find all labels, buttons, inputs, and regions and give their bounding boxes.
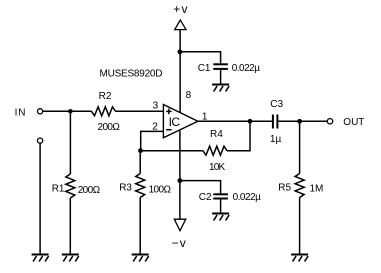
resistor R2	[92, 107, 116, 116]
svg-text:8: 8	[186, 90, 192, 101]
wire C1 to ground	[220, 70, 222, 84]
wire junction down to R1	[69, 111, 71, 174]
svg-text:IN: IN	[15, 107, 27, 118]
node OUT terminal	[327, 119, 332, 124]
wire output node down to R5	[299, 121, 301, 173]
svg-text:1M: 1M	[310, 184, 324, 195]
svg-text:R1: R1	[52, 184, 65, 195]
svg-text:100Ω: 100Ω	[149, 185, 172, 196]
capacitor C3 plates	[273, 115, 278, 129]
wire C2 to ground	[220, 199, 222, 213]
junction pin2/R3/R4	[138, 148, 143, 153]
resistor R1	[66, 174, 75, 198]
svg-text:IC: IC	[169, 115, 181, 129]
wire R3 to ground	[139, 198, 141, 254]
svg-text:MUSES8920D: MUSES8920D	[100, 69, 163, 80]
junction pin4/C2	[178, 178, 183, 183]
junction +v rail	[178, 49, 183, 54]
wire R5 to ground	[299, 198, 301, 254]
wire R1 to ground	[69, 198, 71, 254]
resistor R5	[295, 174, 304, 198]
svg-text:200Ω: 200Ω	[78, 185, 101, 196]
ground below R1	[62, 255, 79, 262]
ground below R3	[132, 255, 149, 262]
svg-text:R4: R4	[210, 129, 223, 140]
svg-text:C1: C1	[198, 63, 211, 74]
ground below C1	[212, 85, 229, 92]
svg-text:+v: +v	[173, 2, 188, 16]
node IN upper terminal	[38, 109, 43, 114]
wire output to C3	[198, 120, 272, 122]
wire +v to op-amp pin8	[179, 30, 181, 113]
junction input/R1	[68, 109, 73, 114]
ground below C2	[212, 214, 229, 221]
node IN lower terminal	[38, 138, 43, 143]
svg-text:3: 3	[153, 101, 159, 112]
capacitor C2 plates	[213, 194, 228, 198]
wire pin4 rail to C2	[180, 181, 221, 194]
svg-text:0.022µ: 0.022µ	[232, 63, 261, 74]
wire IN to R2	[43, 110, 92, 112]
resistor R4	[203, 146, 227, 155]
svg-text:C3: C3	[270, 99, 283, 110]
op-amp U1 (IC)	[163, 105, 198, 138]
svg-text:200Ω: 200Ω	[98, 122, 121, 133]
junction output/feedback	[248, 119, 253, 124]
wire R2 to pin3	[116, 110, 164, 112]
svg-text:2: 2	[152, 121, 158, 132]
svg-text:OUT: OUT	[343, 117, 364, 128]
wire C3 to OUT	[278, 120, 327, 122]
svg-text:0.022µ: 0.022µ	[233, 192, 262, 203]
wire pin4 down to -v	[179, 130, 181, 219]
svg-text:C2: C2	[199, 192, 212, 203]
wire +v rail to C1	[180, 52, 221, 64]
wire feedback rail	[141, 150, 204, 152]
wire junction to R3	[139, 151, 141, 174]
wire IN lower terminal to ground	[39, 143, 41, 254]
power symbol -v arrow	[174, 219, 186, 231]
power symbol +v arrow	[175, 20, 186, 30]
ground below IN lower terminal	[32, 255, 49, 262]
svg-text:10K: 10K	[209, 162, 226, 173]
svg-text:−v: −v	[172, 236, 187, 250]
svg-text:1: 1	[202, 112, 208, 123]
svg-text:1µ: 1µ	[270, 134, 282, 145]
wire R4 to output node	[227, 121, 250, 150]
wire pin2	[141, 131, 164, 150]
svg-text:R3: R3	[119, 183, 132, 194]
resistor R3	[136, 174, 145, 198]
capacitor C1 plates	[213, 64, 228, 69]
junction output/R5	[297, 119, 302, 124]
svg-text:R2: R2	[99, 91, 112, 102]
ground below R5	[291, 255, 308, 262]
svg-text:R5: R5	[278, 183, 291, 194]
